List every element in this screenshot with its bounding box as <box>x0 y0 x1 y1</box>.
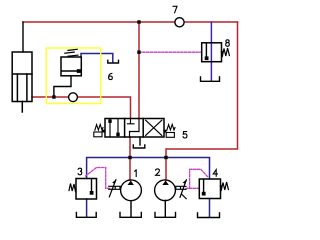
junction: pump 1 line crosses return line <box>128 156 131 159</box>
junction: drain tap on line A <box>52 95 55 98</box>
wire: blue return line across bottom <box>87 158 210 180</box>
pilot line: magenta dashed from pump 2 compensator to valve 4 <box>186 169 209 188</box>
tank below valve 5 <box>133 145 145 148</box>
pump 2 compensator throttle symbol <box>176 180 187 199</box>
check valve 7 (circle on top line) <box>175 18 184 27</box>
wire: black tank stem below valve 5 <box>139 137 141 145</box>
valve 4 internal arrow <box>203 180 205 193</box>
label 8 <box>226 40 230 47</box>
label 5 <box>183 132 187 138</box>
cylinder C1 rod <box>17 74 27 112</box>
tank 6 (small tank of reducing valve drain) <box>108 60 119 63</box>
valve 4 spring <box>221 182 228 191</box>
label 2 <box>156 169 160 175</box>
tank below valve 3 <box>76 213 96 218</box>
pump 1 compensator throttle symbol <box>109 180 121 197</box>
label 7 <box>173 6 177 13</box>
junction: top line to branch B <box>137 20 140 23</box>
cylinder C1 barrel <box>12 52 32 102</box>
valve 5 right spring and pilot box <box>166 124 175 137</box>
wire: red pump 1 pressure line below valve 5 <box>129 137 131 180</box>
pump 2 circle <box>155 180 176 201</box>
pump 1 circle <box>121 180 142 201</box>
wire: black stem cylinder top port <box>22 22 24 52</box>
label 1 <box>135 170 137 177</box>
tank below pump 2 <box>155 213 176 218</box>
wire: right red riser down to pump 2 feed <box>166 22 238 180</box>
valve 5 left position arrows <box>110 119 118 137</box>
pilot line: magenta dashed from line B to valve 8 <box>139 51 202 53</box>
valve 4 body <box>199 179 220 199</box>
valve 5 centre position: blocked port and bypass path <box>128 119 140 137</box>
cylinder C1 piston <box>12 73 32 75</box>
pressure reducing valve flow arrow <box>62 70 78 72</box>
wire: blue drop from valve 3 to tank <box>86 199 88 217</box>
valve 3 internal arrow <box>91 179 93 192</box>
pressure reducing valve spring (zigzag on top) <box>65 49 78 56</box>
wire: black drain path of reducing valve inside yellow frame <box>54 76 71 97</box>
valve 8 spring <box>222 48 229 57</box>
junction: pilot tap on branch B <box>137 51 140 54</box>
valve 3 body <box>76 179 97 200</box>
pilot line: magenta dashed from valve 3 to pump 1 compensator <box>86 168 111 189</box>
wire: top pressure line (red) from cylinder to right corner <box>23 21 238 23</box>
junction: pump 2 line crosses return line <box>164 156 167 159</box>
wire: red branch B from top junction down to valve 5 <box>138 22 140 119</box>
label 6 <box>109 73 113 79</box>
pressure relief valve 8 body <box>202 43 222 62</box>
wire: red line A from cylinder to valve 5 <box>32 97 131 119</box>
valve 8 internal arrow <box>205 44 207 58</box>
pump 2 outlet triangle <box>162 181 168 186</box>
wire: blue pilot drain of valve 8 from top line through valve to tank <box>210 22 212 81</box>
label 4 <box>213 170 217 177</box>
label 3 <box>78 168 82 175</box>
pump 1 outlet triangle <box>128 181 134 186</box>
valve 5 right position crossed arrows <box>146 120 162 135</box>
pressure reducing valve (inside yellow frame) body <box>61 57 81 76</box>
yellow subsystem frame <box>46 48 100 104</box>
wire: blue drain of reducing valve 6 to small tank <box>81 54 113 63</box>
tank below valve 8 <box>201 77 220 81</box>
wire: black tank stem below pump 2 <box>164 200 166 217</box>
wire: black tank stem below pump 1 <box>130 201 132 217</box>
tank below valve 4 <box>198 213 220 218</box>
check valve (circle) in yellow frame <box>69 93 78 102</box>
tank below pump 1 <box>120 213 141 218</box>
valve 3 spring (left) <box>69 184 76 192</box>
valve 5 left spring and pilot box <box>94 124 103 136</box>
directional valve 5 body (3 positions) <box>105 119 164 138</box>
wire: blue drop from valve 4 to tank <box>209 199 211 218</box>
